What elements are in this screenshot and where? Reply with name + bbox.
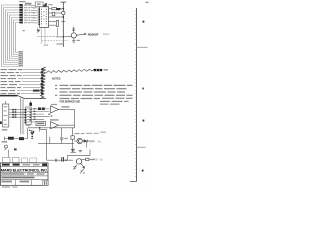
left end tick [3,137,5,141]
torn-edge squiggle [46,69,94,73]
title row gray text far right [37,173,45,174]
wire Q2 out [82,140,94,142]
mark small [14,148,17,150]
wire vertical drop B [22,99,24,135]
wire horizontal lower [38,143,74,145]
title bottom divider 1 [14,180,16,186]
page edge ruler ticks [135,11,136,177]
resistor R6 [71,136,74,139]
U3 output wire [58,108,74,110]
page edge vertical line [136,8,138,181]
power rail +5V tee [61,2,67,47]
Y1 inner mark [37,3,41,5]
junction marks on rows [33,7,35,18]
transistor Q2 [77,138,82,143]
svg-text:10µH: 10µH [103,32,110,36]
wire feedback vertical [74,109,76,127]
title row small dark text 2 [13,164,20,166]
U2 label below [2,129,8,130]
wire R7 right [89,158,95,160]
label +5V row [50,119,59,120]
wire corner to bottom branch [40,130,47,161]
U2 inner text dashes [4,106,8,125]
U1 right pin wires [49,9,64,25]
junction dot on rail [63,16,65,18]
svg-text:MARS ELECTRONICS, INC.: MARS ELECTRONICS, INC. [1,168,48,173]
wire base feed [56,36,71,38]
crystal Y1 (top box) [35,2,43,7]
value label small [77,40,80,41]
wire bottom branch horizontal [47,159,73,161]
wire Q2 emitter drop [86,141,88,147]
title top-right dark cell [42,164,47,167]
label K1 (dark) [56,8,60,10]
capacitor C7 [62,157,64,162]
transistor Q1 [71,33,76,38]
op-amp U2 (left IC lower) [3,104,9,127]
capacitor C8 [73,167,76,168]
svg-text:8Ω: 8Ω [100,158,103,162]
tiny label below stubs [44,45,48,46]
heavy wire at connector bottom [0,95,18,97]
zone letter A2 [142,170,144,172]
C4 value label [64,138,67,139]
node stub up [30,101,32,103]
component on row 8 [33,90,40,92]
wire stubs below U1 [41,28,45,44]
transistor Q5 triangle [30,132,34,135]
node blob top [29,103,32,106]
approvals box 2 [13,157,19,162]
wire through crystals [4,138,27,140]
diode D2 [84,139,88,142]
net label stubs at bus bottom [18,51,21,66]
below-block dashes [2,186,10,187]
U2 left edge mark [0,121,2,124]
title block rule 1 [0,166,48,168]
C4 lead to lower wire [61,140,63,144]
resistor R2 [56,20,58,26]
approvals box 4 [30,158,37,163]
resistor R7 [86,158,89,160]
wire vertical drop A [20,97,22,134]
junction dot [39,127,41,129]
Q2 internals [78,139,81,143]
wire dashed lower [42,40,68,42]
note line 1 [55,85,133,86]
title row gray marks [22,164,30,165]
arrow to adjust label [77,33,87,35]
zone letter C [142,88,144,90]
title row gray marks 2 [33,164,40,165]
U2 right pin squares [12,109,16,118]
title row gray text [1,173,24,174]
svg-text:FOR SERVICE USE: FOR SERVICE USE [60,101,81,104]
op-amp U1 (main IC) [40,7,49,28]
wire vertical x72.6 [72,128,74,153]
svg-text:OUT: OUT [89,139,95,143]
polarity marks column [34,108,36,120]
wire vertical stub [57,28,59,37]
svg-text:ADJUST: ADJUST [88,33,99,37]
wire bus W8 (innermost) [16,23,23,53]
title right cell bars [43,181,45,185]
title row product text [1,177,34,179]
resistor R5 [42,108,45,111]
stray mark left [23,30,25,31]
label near rail top [48,4,53,5]
wire rows to J2 pins [17,70,41,94]
op-amp U5 box [26,107,32,124]
wire drop from junction [39,128,41,132]
title bottom text 1 [1,181,12,183]
approvals box 1 [3,157,10,162]
label on squiggle (dark) [94,69,102,71]
connector J1 body line [22,4,24,24]
trailing marks below Q3 [81,171,85,174]
fold tick upper [137,46,148,48]
top right tick [146,1,149,3]
capacitor C2 above Q1 [72,27,75,33]
Q3 collector wire [81,158,85,160]
wire bus W3 [6,10,23,63]
wire bus W4 [8,13,23,61]
junction dot [65,160,66,161]
title block rule 4 [0,179,48,181]
Q3 emitter arrow [81,163,85,167]
Q3 lower strokes [73,164,84,173]
transistor Q5 cluster dots [29,130,31,132]
wire stub bottom [70,151,76,153]
wire bus W2 [4,8,23,65]
wire dashed control line [38,36,56,38]
note line 5 [100,98,133,105]
label box text [37,123,44,125]
title row gray text right [27,173,34,174]
connector J2 pin squares [41,69,44,95]
wire rows J1 to U1 [31,5,40,23]
net labels at J1 rows [24,5,31,24]
zone letter A [143,120,145,122]
label above R6 [75,133,80,134]
wire small corner [49,137,51,144]
U1 pin numbers inside [41,9,46,26]
wire bus W6 [12,18,23,57]
note line 4 [55,95,133,96]
svg-text:8Ω: 8Ω [98,139,101,143]
tick marks on branch [55,159,56,162]
title block rule 3 [0,175,48,177]
label note small [57,43,64,44]
transistor Q3 [76,159,81,164]
capacitor C4 on vertical [61,128,63,138]
U1 top label [40,5,46,7]
junction dot [63,36,64,37]
label box 455KHZ [36,121,46,125]
wire vertical left join [27,128,29,139]
wire C1 to rail [55,12,64,14]
resistor R4 [38,108,41,111]
U5 label below [26,125,31,126]
resistor R1 [52,8,57,10]
U5 right pin marks [30,109,32,121]
wire long horizontal [28,127,75,129]
label below left [2,141,8,142]
microphone MK1 circle [5,145,8,148]
U2 top stub [5,101,7,104]
wire bus W1 (outermost L-bus wire) [2,5,23,67]
capacitor C3 below Q1 [72,38,75,42]
op-amp U3 [51,106,59,113]
bus terminal column line [22,51,24,67]
capacitor C1 [52,12,55,16]
title right cell box [43,180,48,185]
U3 upper label [51,104,57,105]
wire vertical left bottom [8,150,10,158]
wire rows J3 to right [27,109,50,122]
connector J1 top label [19,1,26,2]
component K2 (dark mark) [45,3,47,6]
MK1 tail wire [5,148,6,150]
title bottom text 2 [20,181,30,183]
note line 3 [60,91,126,92]
transistor Q4 (circle on rail) [62,11,65,14]
fold tick lower [137,146,146,148]
small value after label [104,69,108,70]
wire bus W5 [10,15,23,59]
crystal Y3 [19,137,24,140]
note line 2 [55,88,127,89]
title row small dark text 1 [2,164,10,166]
connector J2 rows: net name texts [1,69,23,94]
U1 center text [43,11,45,22]
wire R1 to rail [57,8,64,10]
connector J1 pin squares [19,4,22,23]
wire diagonal drop [18,96,47,99]
capacitor C6 [79,150,82,151]
zone letter B [143,21,145,23]
diode D1 below U1 [37,27,40,33]
Q2 base wire [74,140,77,142]
svg-text:SPKR: SPKR [91,158,98,162]
tick on rail [61,21,65,23]
title block rule 2 [0,172,48,174]
wire bus W7 [14,20,23,55]
note line 4b [60,98,101,99]
connector J2 pin zigzag chain [40,67,45,98]
op-amp U4 [51,122,59,129]
ground GND1 [31,136,33,138]
label top text [25,3,32,5]
U4 output wire [58,124,74,126]
marks below U3 [48,114,52,117]
title bottom divider 2 [31,180,33,186]
svg-text:NOTES:: NOTES: [52,78,61,81]
junction dot on rail [63,8,65,10]
U5 left pin squares [25,109,27,123]
page edge bottom hook [130,180,137,182]
ribbon wires U2 to U5 [9,110,25,118]
U3 value label [62,106,70,107]
U1 left pin squares [38,9,40,25]
capacitor C5 [71,149,75,151]
C4 plates [60,138,64,140]
wire loop up [68,150,90,161]
title block outline [0,163,48,185]
approvals box 3 [21,158,27,163]
crystal Y2 (left dark comp) [8,137,14,140]
